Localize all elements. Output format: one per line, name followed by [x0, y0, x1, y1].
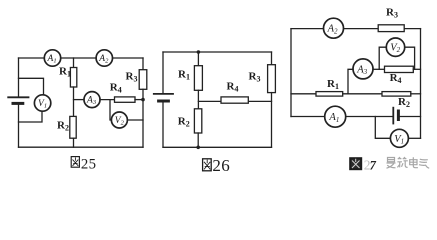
svg-text:R4: R4	[110, 81, 122, 94]
resistor R3 body	[378, 25, 404, 32]
wire A3 to R4	[100, 99, 115, 101]
wire right below R3	[142, 89, 144, 147]
battery B2 short plate	[159, 100, 169, 103]
wire middle horizontal	[198, 100, 271, 102]
wire bottom	[19, 146, 144, 148]
wire left vertical	[290, 29, 292, 117]
wire battery- down	[18, 105, 20, 148]
wire R1 line left	[291, 93, 316, 95]
wire A3 branch	[74, 99, 85, 101]
wire R1 to R2	[197, 90, 199, 109]
node dot R1 top	[197, 50, 201, 54]
wire R2 to right vertical	[411, 93, 421, 95]
wire V1 bottom stub	[19, 111, 43, 122]
battery B1 short plate	[13, 102, 23, 105]
svg-text:R3: R3	[249, 70, 261, 83]
battery B3 short plate	[397, 111, 400, 120]
ammeter A2	[96, 50, 112, 66]
wire V2 left drop	[110, 100, 112, 120]
voltmeter V1	[390, 129, 408, 147]
wire R1 to R2	[73, 87, 75, 116]
voltmeter V1	[34, 95, 50, 111]
wire V1 right	[408, 137, 420, 139]
svg-text:R1: R1	[59, 66, 71, 79]
caption glyph TU (fig25)	[71, 157, 79, 168]
resistor R2 body	[194, 109, 201, 133]
caption glyph TU (fig27, heavy)	[350, 158, 361, 169]
resistor R4 body	[221, 97, 248, 103]
wire bottom	[163, 146, 272, 148]
svg-text:R3: R3	[126, 71, 138, 84]
wire A1 to battery	[346, 116, 394, 118]
wire R4 to right vertical	[413, 68, 420, 70]
svg-text:25: 25	[81, 156, 96, 172]
wire R1 branch from top	[73, 58, 75, 68]
wire top	[163, 51, 272, 53]
wire R1 to R2	[343, 93, 382, 95]
wire left vertical upper	[162, 52, 164, 93]
wire R2 bottom	[73, 138, 75, 147]
svg-text:R4: R4	[390, 72, 402, 85]
wire right vertical above R3	[271, 52, 273, 65]
ammeter A1	[325, 106, 346, 127]
wire right vertical	[420, 29, 422, 139]
wire top (battery+ to R3 top)	[19, 57, 144, 59]
svg-text:R4: R4	[227, 81, 239, 94]
voltmeter V2	[111, 112, 127, 128]
ammeter A2	[324, 18, 344, 38]
battery B2 long plate	[154, 93, 173, 95]
resistor R2 body	[382, 92, 411, 97]
wire V2 right bracket	[405, 47, 415, 69]
svg-text:R2: R2	[178, 115, 190, 128]
wire right top (to R3)	[142, 58, 144, 70]
watermark char YI	[387, 158, 396, 169]
watermark yizhu dianqi	[387, 157, 430, 168]
svg-text:26: 26	[212, 156, 230, 175]
svg-text:R1: R1	[178, 68, 190, 81]
watermark char ZHU	[397, 157, 407, 167]
wire R1 top lead	[197, 52, 199, 66]
wire R4 to node	[135, 99, 143, 101]
node dot R2 bottom	[196, 146, 200, 150]
svg-text:R1: R1	[327, 78, 339, 91]
wire R2 bottom lead	[197, 133, 199, 147]
wire left vertical (top wire to battery)	[18, 58, 20, 96]
watermark char QI	[419, 159, 429, 168]
resistor R3 body	[268, 65, 276, 93]
resistor R1 body	[316, 92, 343, 97]
resistor R4 body	[115, 97, 136, 102]
wire V2 left bracket	[379, 47, 386, 69]
wire A3 to R4	[373, 68, 385, 70]
wire A3 left stub	[348, 69, 353, 94]
voltmeter V2	[386, 38, 404, 56]
svg-text:R2: R2	[398, 96, 410, 109]
wire V1 top stub	[19, 78, 44, 95]
resistor R3 body	[139, 70, 147, 90]
resistor R1 body	[70, 68, 76, 88]
svg-text:R3: R3	[386, 6, 398, 19]
ammeter A3	[84, 92, 100, 108]
wire V2 right	[127, 119, 143, 121]
wire V1 left bracket	[375, 117, 390, 139]
battery B1 long plate	[8, 96, 28, 98]
svg-text:R2: R2	[57, 120, 69, 133]
caption glyph TU (fig26)	[203, 159, 212, 171]
node dot R4-R3 junction	[141, 98, 145, 102]
watermark char DIAN	[410, 157, 418, 168]
resistor R1 body	[194, 66, 202, 91]
ammeter A1	[44, 50, 60, 66]
wire right vertical below R3	[271, 93, 273, 148]
ammeter A3	[353, 59, 373, 79]
wire A1 line left	[291, 116, 325, 118]
wire left vertical lower	[162, 102, 164, 147]
wire top	[291, 28, 421, 30]
resistor R4 body	[385, 66, 414, 72]
battery B3 long plate	[392, 108, 394, 124]
wire battery to right vertical	[398, 116, 420, 118]
svg-text:7: 7	[370, 158, 377, 172]
resistor R2 body	[70, 116, 76, 138]
